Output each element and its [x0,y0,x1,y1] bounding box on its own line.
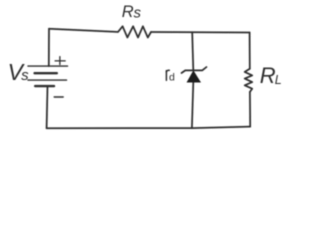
resistor Rs [118,26,151,37]
wire zener branch top [192,32,193,70]
svg-text:d: d [169,71,175,83]
wire left-top (corner to battery) [48,29,50,66]
wire top-right (Rs to corner) [151,31,250,34]
zener diode cathode bar [182,67,207,73]
resistor RL [245,69,253,92]
wire right (corner to RL) [249,33,251,69]
wire right-bottom (RL to corner) [249,92,251,127]
wire top-left (corner to Rs) [49,29,117,32]
svg-text:Rs: Rs [122,3,142,22]
wire left-bottom (battery to corner) [46,86,49,128]
wire zener branch bottom [192,82,193,128]
minus sign [54,96,63,98]
zener diode anode triangle [187,71,200,82]
label rd [166,70,169,80]
plus sign [55,57,65,65]
wire bottom [47,127,251,129]
battery Vs [28,66,68,86]
